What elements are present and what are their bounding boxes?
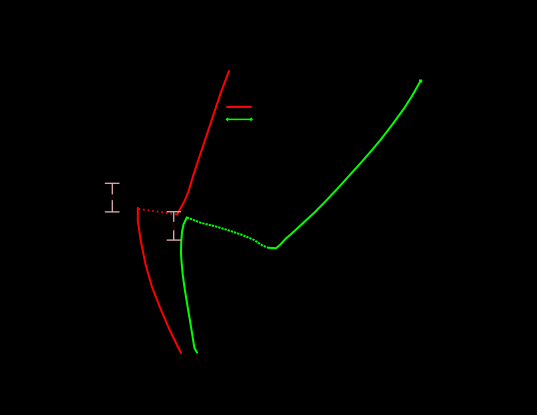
red curve upper steep branch [177,71,229,214]
red dotted horizontal segment [139,209,177,215]
error bar 1 (pink) [105,183,120,212]
error bar 2 (pink) [167,212,181,240]
error bar 2 dark center marker [172,222,175,231]
green end point marker [419,80,422,83]
legend red line sample [226,106,252,108]
red corner vertical and lower tail [138,208,181,353]
green tail from peak down [181,217,197,352]
green dotted shallow branch from peak to minimum [187,217,269,247]
error bar 1 dark center marker [111,194,114,200]
legend green line sample with end point markers [227,118,253,120]
green minimum flat and long rising branch [268,81,420,248]
